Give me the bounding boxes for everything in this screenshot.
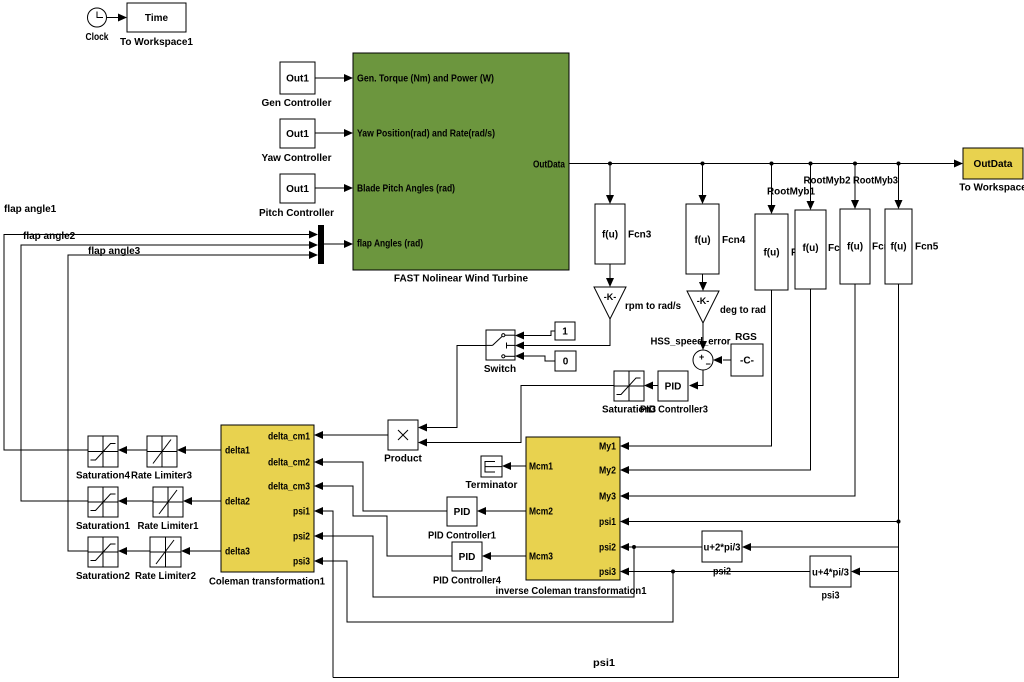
svg-text:RootMyb2: RootMyb2 bbox=[804, 176, 851, 187]
svg-text:+: + bbox=[699, 352, 704, 362]
svg-text:rpm to rad/s: rpm to rad/s bbox=[625, 301, 681, 312]
svg-text:Clock: Clock bbox=[86, 32, 109, 43]
svg-text:RootMyb1: RootMyb1 bbox=[767, 187, 815, 198]
svg-text:RootMyb3: RootMyb3 bbox=[853, 176, 898, 187]
svg-text:Out1: Out1 bbox=[286, 184, 309, 195]
svg-text:u+4*pi/3: u+4*pi/3 bbox=[812, 568, 849, 579]
svg-text:Saturation1: Saturation1 bbox=[76, 521, 130, 532]
svg-text:Fcn4: Fcn4 bbox=[722, 235, 746, 246]
svg-text:psi3: psi3 bbox=[599, 567, 616, 578]
svg-text:To Workspace1: To Workspace1 bbox=[120, 37, 193, 48]
svg-text:Gen Controller: Gen Controller bbox=[261, 98, 331, 109]
svg-text:Terminator: Terminator bbox=[466, 480, 518, 491]
svg-text:Product: Product bbox=[384, 454, 422, 465]
svg-text:delta1: delta1 bbox=[225, 446, 250, 457]
svg-text:psi1: psi1 bbox=[593, 658, 615, 669]
svg-text:Saturation4: Saturation4 bbox=[76, 471, 130, 482]
svg-text:My3: My3 bbox=[599, 492, 616, 503]
svg-text:delta3: delta3 bbox=[225, 547, 250, 558]
svg-text:psi2: psi2 bbox=[599, 543, 616, 554]
svg-text:inverse Coleman transformation: inverse Coleman transformation1 bbox=[496, 586, 647, 597]
svg-text:Rate Limiter1: Rate Limiter1 bbox=[138, 521, 199, 532]
svg-text:PID: PID bbox=[459, 552, 476, 563]
svg-text:PID Controller4: PID Controller4 bbox=[433, 576, 501, 587]
svg-text:psi3: psi3 bbox=[293, 557, 310, 568]
svg-text:FAST Nolinear Wind Turbine: FAST Nolinear Wind Turbine bbox=[394, 274, 529, 285]
svg-text:flap angle1: flap angle1 bbox=[4, 204, 57, 215]
svg-text:deg to rad: deg to rad bbox=[720, 305, 766, 316]
svg-text:psi1: psi1 bbox=[599, 517, 616, 528]
svg-text:psi2: psi2 bbox=[713, 567, 731, 578]
svg-text:delta_cm2: delta_cm2 bbox=[268, 458, 310, 469]
svg-text:Out1: Out1 bbox=[286, 129, 309, 140]
svg-text:flap angle3: flap angle3 bbox=[88, 246, 141, 257]
svg-text:OutData: OutData bbox=[974, 159, 1013, 170]
svg-text:flap angle2: flap angle2 bbox=[23, 231, 76, 242]
svg-text:f(u): f(u) bbox=[802, 243, 818, 254]
svg-text:Coleman transformation1: Coleman transformation1 bbox=[209, 577, 325, 588]
svg-text:My2: My2 bbox=[599, 466, 616, 477]
svg-text:f(u): f(u) bbox=[847, 242, 863, 253]
svg-text:OutData: OutData bbox=[533, 160, 565, 171]
svg-text:HSS_speed_error: HSS_speed_error bbox=[651, 337, 731, 348]
svg-text:RGS: RGS bbox=[735, 332, 757, 343]
svg-text:f(u): f(u) bbox=[694, 235, 710, 246]
svg-text:psi3: psi3 bbox=[822, 591, 840, 602]
svg-text:1: 1 bbox=[562, 327, 568, 338]
svg-text:−: − bbox=[706, 359, 711, 369]
svg-text:Mcm2: Mcm2 bbox=[529, 507, 553, 518]
svg-text:Yaw Controller: Yaw Controller bbox=[261, 153, 331, 164]
svg-text:f(u): f(u) bbox=[602, 230, 618, 241]
svg-text:flap Angles (rad): flap Angles (rad) bbox=[357, 239, 423, 250]
svg-text:Rate Limiter2: Rate Limiter2 bbox=[135, 571, 196, 582]
svg-text:-C-: -C- bbox=[740, 356, 754, 367]
svg-text:Pitch Controller: Pitch Controller bbox=[259, 208, 334, 219]
svg-text:Blade Pitch Angles (rad): Blade Pitch Angles (rad) bbox=[357, 184, 455, 195]
svg-text:Gen. Torque (Nm) and Power (W): Gen. Torque (Nm) and Power (W) bbox=[357, 74, 494, 85]
svg-text:To Workspace: To Workspace bbox=[959, 183, 1024, 194]
svg-text:Fcn3: Fcn3 bbox=[628, 230, 652, 241]
svg-text:delta2: delta2 bbox=[225, 497, 250, 508]
svg-text:PID Controller1: PID Controller1 bbox=[428, 531, 496, 542]
svg-text:delta_cm1: delta_cm1 bbox=[268, 432, 310, 443]
svg-text:psi1: psi1 bbox=[293, 507, 310, 518]
svg-text:Saturation2: Saturation2 bbox=[76, 571, 130, 582]
svg-text:f(u): f(u) bbox=[763, 248, 779, 259]
svg-text:f(u): f(u) bbox=[890, 242, 906, 253]
svg-text:psi2: psi2 bbox=[293, 532, 310, 543]
svg-text:Time: Time bbox=[145, 13, 169, 24]
svg-text:Mcm1: Mcm1 bbox=[529, 462, 553, 473]
svg-text:Switch: Switch bbox=[484, 364, 516, 375]
svg-text:Fcn5: Fcn5 bbox=[915, 242, 939, 253]
svg-text:PID Controller3: PID Controller3 bbox=[640, 405, 708, 416]
svg-text:Mcm3: Mcm3 bbox=[529, 552, 553, 563]
svg-text:My1: My1 bbox=[599, 442, 616, 453]
svg-text:Yaw Position(rad) and Rate(rad: Yaw Position(rad) and Rate(rad/s) bbox=[357, 129, 495, 140]
svg-text:u+2*pi/3: u+2*pi/3 bbox=[704, 543, 741, 554]
svg-text:Out1: Out1 bbox=[286, 74, 309, 85]
svg-text:-K-: -K- bbox=[604, 292, 617, 302]
svg-text:Rate Limiter3: Rate Limiter3 bbox=[131, 471, 192, 482]
svg-text:PID: PID bbox=[665, 382, 682, 393]
svg-text:PID: PID bbox=[454, 507, 471, 518]
svg-text:delta_cm3: delta_cm3 bbox=[268, 482, 310, 493]
svg-text:0: 0 bbox=[563, 357, 569, 368]
svg-text:-K-: -K- bbox=[697, 296, 710, 306]
